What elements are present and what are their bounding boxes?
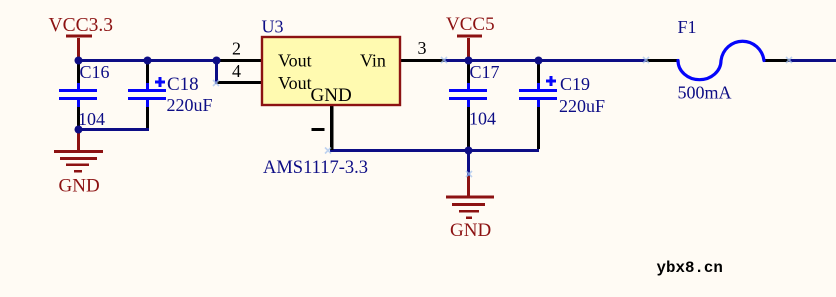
svg-text:2: 2 <box>232 39 241 59</box>
svg-text:4: 4 <box>232 61 241 81</box>
svg-text:GND: GND <box>59 176 100 197</box>
svg-text:VCC3.3: VCC3.3 <box>49 15 113 36</box>
svg-text:C18: C18 <box>167 74 199 95</box>
svg-text:ybx8.cn: ybx8.cn <box>657 259 723 277</box>
svg-text:C19: C19 <box>560 74 590 94</box>
svg-text:220uF: 220uF <box>167 95 213 115</box>
svg-text:GND: GND <box>311 85 352 106</box>
svg-text:VCC5: VCC5 <box>446 14 495 35</box>
svg-text:Vout: Vout <box>278 73 312 93</box>
svg-text:AMS1117-3.3: AMS1117-3.3 <box>263 158 368 178</box>
svg-text:F1: F1 <box>678 17 697 37</box>
svg-text:GND: GND <box>450 220 491 241</box>
svg-text:Vin: Vin <box>360 51 386 71</box>
svg-text:U3: U3 <box>262 17 284 37</box>
svg-text:500mA: 500mA <box>678 83 732 103</box>
svg-text:C16: C16 <box>80 62 110 82</box>
svg-text:3: 3 <box>418 38 427 58</box>
svg-text:104: 104 <box>469 109 496 129</box>
svg-text:104: 104 <box>78 109 105 129</box>
svg-text:220uF: 220uF <box>559 96 605 116</box>
svg-text:C17: C17 <box>470 62 500 82</box>
svg-text:Vout: Vout <box>278 51 312 71</box>
